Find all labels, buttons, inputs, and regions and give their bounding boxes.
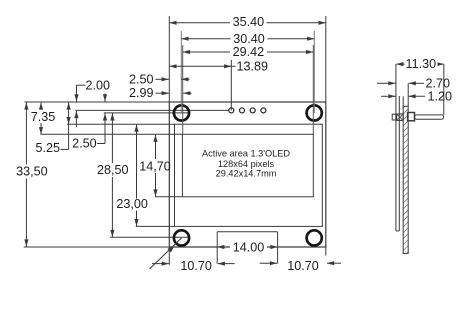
svg-text:14.00: 14.00 [233, 240, 265, 254]
svg-text:5.25: 5.25 [36, 141, 61, 155]
svg-text:28,50: 28,50 [97, 163, 129, 177]
svg-text:10.70: 10.70 [180, 259, 212, 273]
svg-text:23,00: 23,00 [116, 197, 148, 211]
svg-text:13.89: 13.89 [237, 60, 269, 74]
svg-text:30.40: 30.40 [233, 32, 265, 46]
svg-text:11.30: 11.30 [406, 57, 437, 71]
svg-text:2.00: 2.00 [86, 78, 111, 92]
svg-text:1.20: 1.20 [428, 89, 453, 103]
svg-text:2.50: 2.50 [72, 137, 97, 151]
svg-text:33,50: 33,50 [16, 165, 48, 179]
svg-text:14,70: 14,70 [139, 159, 171, 173]
svg-text:2.50: 2.50 [129, 72, 154, 86]
svg-text:10.70: 10.70 [287, 259, 319, 273]
svg-text:29.42x14.7mm: 29.42x14.7mm [216, 169, 277, 179]
svg-text:7.35: 7.35 [31, 110, 56, 124]
svg-text:128x64 pixels: 128x64 pixels [218, 159, 275, 169]
svg-text:35.40: 35.40 [233, 15, 265, 29]
svg-text:Active area 1.3'OLED: Active area 1.3'OLED [202, 148, 290, 158]
svg-text:29.42: 29.42 [233, 45, 265, 59]
svg-text:2.99: 2.99 [129, 86, 154, 100]
